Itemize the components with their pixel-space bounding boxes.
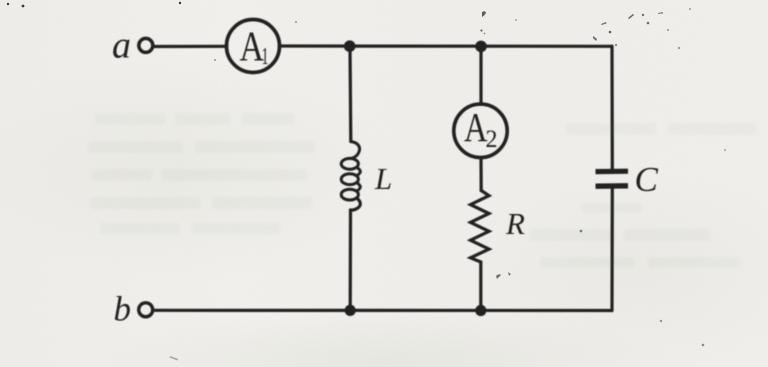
wire A2 to resistor (479, 158, 482, 191)
inductor L coil (350, 142, 360, 159)
svg-text:a: a (112, 25, 131, 67)
node junction bottom-mid (475, 305, 486, 316)
wire a to A1 (155, 45, 227, 48)
svg-text:R: R (505, 206, 525, 241)
node junction bottom-left (345, 305, 356, 316)
ammeter A2 (454, 104, 507, 157)
wire bottom rail (155, 309, 612, 312)
svg-text:L: L (374, 161, 392, 196)
faint bleed-through texture (88, 113, 756, 268)
wire L branch lower (349, 210, 352, 311)
wire right vertical lower (610, 189, 613, 311)
wire R lower (479, 262, 482, 311)
svg-text:2: 2 (486, 126, 498, 153)
svg-text:A: A (464, 104, 488, 150)
svg-text:C: C (635, 160, 659, 199)
wire A2 branch upper (479, 46, 482, 104)
node junction top-left (344, 40, 356, 52)
resistor R zigzag (471, 191, 490, 263)
capacitor C plates (596, 169, 629, 175)
wire L branch upper (348, 46, 352, 141)
terminal b (139, 303, 153, 317)
svg-text:1: 1 (262, 44, 269, 70)
wire right vertical upper (610, 46, 613, 169)
ammeter A1 (227, 20, 280, 73)
terminal a (139, 38, 153, 52)
node junction top-mid (475, 41, 487, 53)
svg-text:b: b (114, 290, 132, 329)
wire A1 to right corner (280, 44, 612, 47)
